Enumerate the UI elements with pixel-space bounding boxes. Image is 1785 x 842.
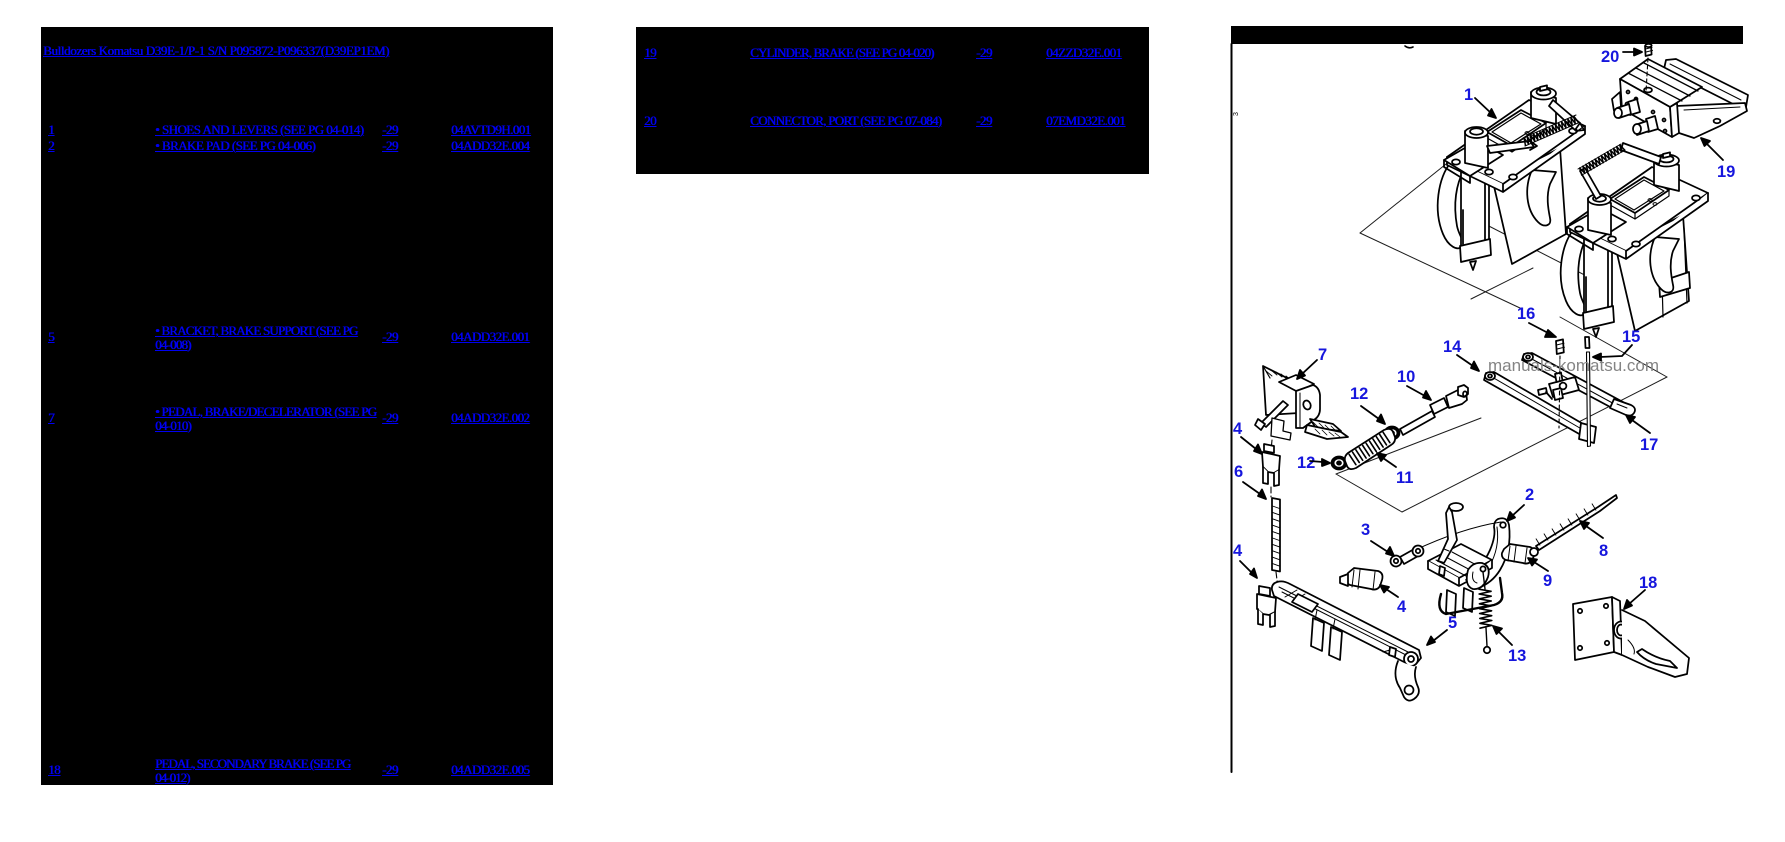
pedal pad [1428, 544, 1492, 578]
row 19 (middle box) [644, 46, 656, 60]
box top face [1279, 375, 1314, 392]
thin connecting curve [1413, 522, 1501, 551]
leader 8 [1586, 526, 1603, 538]
turnbuckle spring 11 [1345, 429, 1395, 469]
plug bolt 20 [1645, 44, 1653, 92]
svg-text:11: 11 [1396, 469, 1413, 487]
left banana plate [1438, 162, 1464, 248]
bracket 18 [1573, 597, 1689, 677]
leader 16 [1529, 323, 1550, 334]
frame 5 [1272, 581, 1421, 700]
svg-text:3: 3 [1233, 112, 1240, 116]
lever 17 arm [1522, 353, 1635, 416]
bracket 7 [1255, 366, 1348, 451]
oval boss plate [1467, 563, 1489, 589]
push rod 8 [1536, 495, 1617, 550]
cotter pin with flag [1538, 388, 1552, 399]
leader 5 [1433, 630, 1447, 641]
row 20 (middle box) [644, 114, 656, 128]
center clevis bracket on lever [1549, 373, 1579, 401]
leader 2 [1512, 505, 1524, 516]
left roller cylinder [1465, 127, 1488, 168]
link from left roller to spring [1580, 168, 1601, 199]
coil spring on right assembly [1580, 145, 1625, 175]
link 3 [1391, 546, 1424, 567]
boss ring for plug [1644, 88, 1652, 93]
svg-text:19: 19 [1717, 163, 1735, 181]
leader 4a [1241, 437, 1256, 449]
svg-text:17: 17 [1640, 436, 1658, 454]
leader 13 [1498, 631, 1512, 645]
leader 12a [1361, 406, 1379, 419]
lever arm from right roller [1549, 100, 1580, 130]
center line [1271, 440, 1272, 451]
right sliver face [1670, 103, 1679, 137]
left ear flange [1612, 92, 1621, 111]
left parts table box [41, 27, 553, 785]
leader 19 [1706, 143, 1723, 160]
plate bolt holes [1452, 128, 1577, 179]
svg-text:15: 15 [1622, 328, 1640, 346]
svg-text:10: 10 [1397, 368, 1415, 386]
coil spring on assembly 1 [1524, 116, 1578, 145]
svg-text:manuals-komatsu.com: manuals-komatsu.com [1488, 357, 1659, 375]
svg-text:2: 2 [1525, 486, 1534, 504]
nut 12 upper [1385, 427, 1400, 440]
svg-text:4: 4 [1233, 542, 1243, 560]
smudge under bar [1405, 46, 1413, 48]
pin 15 long rod [1585, 337, 1591, 447]
left leg cylinder [1460, 165, 1491, 270]
row 18 [48, 763, 60, 777]
leader 6 [1243, 482, 1260, 494]
end block [1579, 423, 1596, 443]
leader 3 [1371, 541, 1388, 552]
svg-text:13: 13 [1508, 647, 1526, 665]
pedal lever 2 [1428, 518, 1510, 616]
valve front face [1620, 79, 1672, 137]
header link [43, 44, 389, 58]
body slab [1493, 148, 1566, 264]
brake cylinder valve assembly 19 [1612, 59, 1748, 138]
nut 12 lower [1332, 457, 1347, 470]
port stub upper [1614, 99, 1640, 118]
pointed wing slats [1310, 419, 1341, 431]
center banana plate [1527, 170, 1556, 225]
rounded end cap [1610, 399, 1635, 416]
clevis 4 upper [1262, 444, 1280, 497]
port stub lower [1633, 116, 1658, 135]
callout labels and leader arrows [1233, 48, 1735, 665]
rod 10 with yoke [1400, 385, 1468, 435]
clamp pieces [1271, 418, 1291, 440]
leader 11 [1383, 458, 1396, 467]
back plate with triangular top [1263, 366, 1299, 415]
svg-text:8: 8 [1599, 542, 1608, 560]
svg-text:5: 5 [1448, 614, 1457, 632]
mounting wing plate [1676, 103, 1747, 138]
svg-text:14: 14 [1443, 338, 1462, 356]
diagram left border line [1231, 44, 1233, 772]
lever arm from left roller [1487, 141, 1534, 153]
feet [1446, 590, 1456, 616]
svg-text:12: 12 [1297, 454, 1315, 472]
leader 18 [1629, 590, 1645, 604]
bolt 16 [1556, 339, 1565, 428]
row 1 [48, 123, 54, 137]
mounting rail band upper [1664, 59, 1748, 107]
leader 14 [1457, 355, 1473, 366]
arm from spring top to right roller [1621, 143, 1661, 164]
row 2 [48, 139, 54, 153]
lever 14 long arm [1484, 372, 1596, 443]
coupling 4 lower middle [1340, 568, 1383, 590]
brake station assembly 1 (left) [1438, 85, 1585, 270]
brake station assembly (right twin) [1561, 143, 1708, 337]
exploded-parts diagram [1225, 20, 1785, 842]
svg-text:1: 1 [1464, 86, 1473, 104]
bent stay rod [1439, 578, 1502, 614]
row 5 [48, 330, 54, 344]
svg-text:4: 4 [1397, 598, 1407, 616]
svg-text:18: 18 [1639, 574, 1657, 592]
top plate [1447, 100, 1585, 184]
leader 4b [1240, 561, 1252, 573]
leader 20 [1623, 51, 1636, 53]
diagram header bar [1231, 26, 1743, 44]
leader 9 [1534, 562, 1548, 571]
right pivot and hook plate [1404, 652, 1418, 666]
leader 15 [1600, 345, 1632, 357]
svg-text:9: 9 [1543, 572, 1552, 590]
svg-text:4: 4 [1233, 420, 1243, 438]
leader 10 [1407, 386, 1425, 396]
box front face with rounded right [1296, 385, 1320, 428]
valve top face with cylinder fins [1620, 59, 1702, 107]
platform plane lines [1336, 148, 1667, 512]
svg-text:12: 12 [1350, 385, 1368, 403]
lock pin with T-handle [1438, 503, 1463, 576]
hanging legs [1311, 618, 1324, 651]
leader 1 [1475, 98, 1492, 114]
leader 12b [1310, 461, 1323, 462]
leader 17 [1632, 420, 1650, 433]
curved lever arm [1466, 518, 1510, 588]
svg-text:6: 6 [1234, 463, 1243, 481]
clevis 4 lower left [1257, 586, 1276, 627]
svg-text:20: 20 [1601, 48, 1619, 66]
svg-text:7: 7 [1318, 346, 1327, 364]
diagonal brace rod [1261, 401, 1288, 427]
middle parts table box [636, 27, 1149, 174]
left step plate [1444, 141, 1503, 176]
coupling 9 [1502, 544, 1538, 564]
svg-text:3: 3 [1361, 521, 1370, 539]
leader 4c [1386, 589, 1398, 597]
plate cutout [1487, 110, 1546, 146]
svg-text:16: 16 [1517, 305, 1535, 323]
threaded rod 6 [1272, 498, 1280, 588]
row 7 [48, 411, 54, 425]
leader 7 [1302, 360, 1317, 374]
right roller cylinder [1531, 85, 1556, 124]
return spring 13 [1479, 566, 1492, 653]
